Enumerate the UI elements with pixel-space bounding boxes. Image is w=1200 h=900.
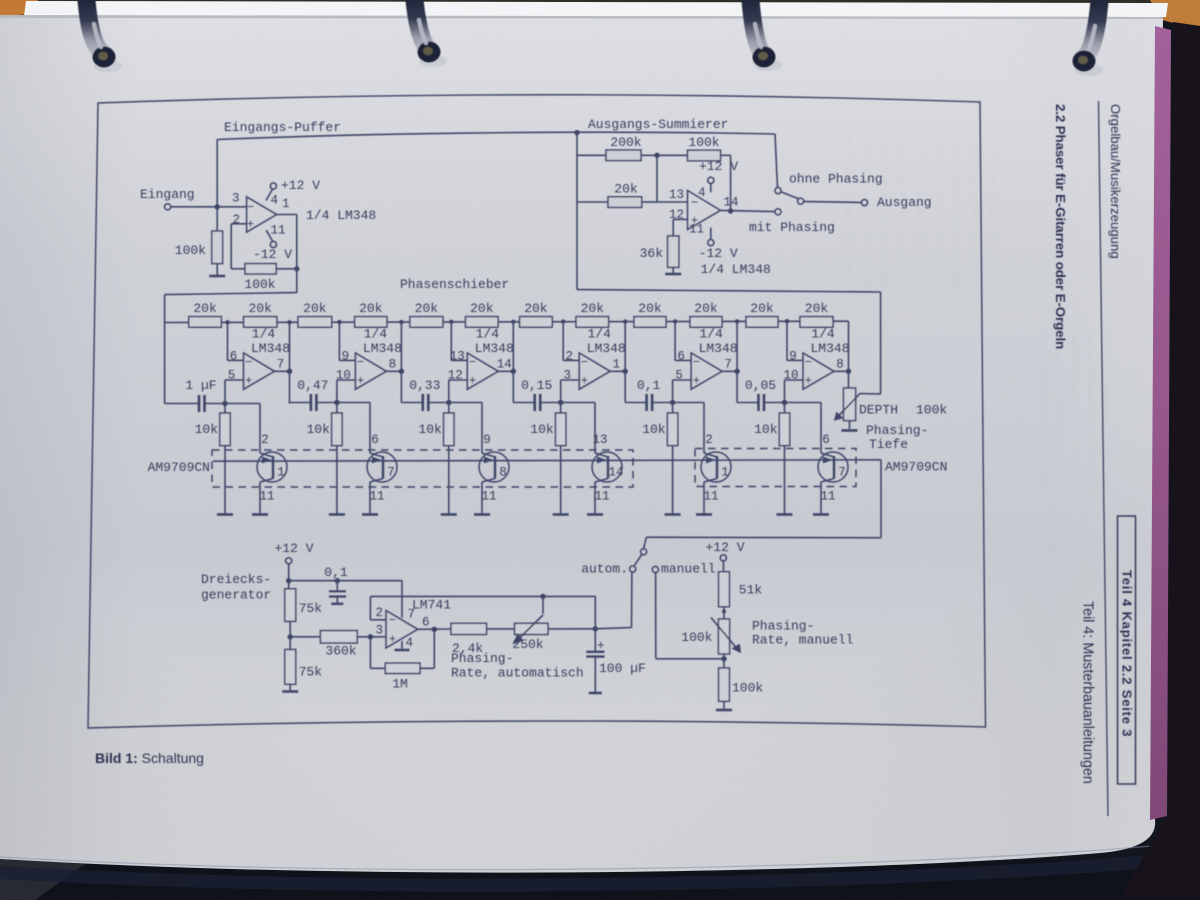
- op-amp U1a buffer 1/4 LM348: [247, 197, 277, 232]
- orange binder spine corner top-left: [0, 0, 38, 16]
- wire stage 1 input drop: [164, 323, 166, 404]
- wire stage 6 non-inverting input: [785, 380, 804, 403]
- op-amp U1b summer 1/4 LM348: [688, 190, 721, 229]
- svg-text:Teil 4 Kapitel 2.2 Seite 3: Teil 4 Kapitel 2.2 Seite 3: [1120, 570, 1135, 737]
- wire phase-shifter top rail: [165, 321, 849, 322]
- svg-text:mulroF red gnuredliB eid tsi r: mulroF red gnuredliB eid tsi refahP: [842, 120, 854, 290]
- wire LFO +12V rail: [289, 580, 402, 582]
- resistor 10k stage 4: [530, 403, 566, 514]
- svg-text:1 µF: 1 µF: [185, 378, 216, 393]
- svg-text:negnutielnauabretsuM eleiv rhe: negnutielnauabretsuM eleiv rhes: [1085, 330, 1097, 489]
- svg-text:+12 V: +12 V: [699, 159, 738, 174]
- svg-text:200k: 200k: [610, 135, 641, 150]
- svg-text:+: +: [389, 633, 396, 647]
- svg-text:AM9709CN: AM9709CN: [148, 460, 210, 475]
- resistor 1M: [370, 629, 434, 691]
- pin 11 FET source: [369, 479, 384, 514]
- svg-text:0,15: 0,15: [521, 378, 552, 393]
- wire stage 3 non-inverting input: [449, 380, 468, 403]
- node +12V manual terminal: [705, 540, 744, 572]
- svg-text:9: 9: [483, 433, 491, 447]
- wire stage 5 inverting input: [673, 319, 691, 360]
- pin 4 ground: [395, 636, 414, 650]
- svg-text:3: 3: [375, 624, 383, 638]
- pin 9: [342, 350, 350, 364]
- svg-text:20k: 20k: [614, 182, 638, 197]
- pin 6: [230, 350, 238, 364]
- label 1/4 LM348 stage 3: [475, 327, 514, 357]
- ground FET 1 source: [252, 513, 268, 516]
- svg-text:1: 1: [282, 197, 290, 211]
- svg-text:−: −: [357, 356, 364, 370]
- svg-text:8: 8: [389, 358, 397, 372]
- svg-text:-12 V: -12 V: [253, 247, 292, 262]
- pin 6: [677, 350, 685, 364]
- svg-text:Rate, manuell: Rate, manuell: [752, 633, 854, 648]
- wire stage 5 non-inverting input: [673, 380, 692, 403]
- resistor 10k stage 5: [642, 403, 678, 514]
- pin 8 output: [836, 358, 844, 372]
- svg-text:11: 11: [689, 223, 704, 237]
- svg-text:−: −: [469, 356, 476, 370]
- svg-text:−: −: [805, 356, 812, 370]
- svg-text:+: +: [357, 374, 364, 388]
- transistor FET 8 (AM9709CN cell): [479, 452, 509, 482]
- label Phasing-Tiefe: [866, 423, 928, 452]
- pin 7 output: [277, 358, 285, 372]
- pin 11 -12V supply: [253, 224, 292, 263]
- svg-text:+: +: [805, 374, 812, 388]
- pin 3: [232, 192, 240, 206]
- resistor 100k summer feedback: [654, 135, 730, 211]
- white edge of pages behind: [24, 1, 1168, 17]
- pin 13 FET drain: [592, 433, 607, 447]
- svg-text:10k: 10k: [418, 422, 442, 437]
- svg-text:+12 V: +12 V: [281, 178, 320, 193]
- pin 4 +12V supply: [266, 178, 320, 208]
- resistor 20k #12 phase rail: [800, 301, 833, 327]
- svg-text:0,1: 0,1: [324, 565, 348, 580]
- wire buffer output: [277, 215, 300, 293]
- pin 2: [375, 606, 383, 620]
- pin 7 output: [724, 358, 732, 372]
- wire stage 4 output node: [610, 319, 628, 402]
- pin 1 output: [612, 358, 620, 372]
- wire pin2 integrator feedback: [370, 594, 595, 620]
- svg-text:Phasing-: Phasing-: [451, 651, 513, 666]
- wire stage 4 to FET drain: [558, 400, 608, 457]
- svg-text:−: −: [693, 356, 700, 370]
- op-amp U4 stage 3 1/4 LM348: [467, 353, 498, 389]
- resistor 100k lower manual: [719, 654, 764, 709]
- capacitor 0,05 stage 6: [737, 378, 784, 411]
- binder ring 2: [414, 0, 447, 67]
- label Dreiecksgenerator: [201, 572, 271, 603]
- node +12V LFO terminal: [274, 541, 313, 589]
- svg-text:1/4: 1/4: [699, 327, 723, 342]
- node mit Phasing contact: [749, 209, 835, 235]
- svg-text:1: 1: [612, 358, 620, 372]
- svg-text:6: 6: [422, 616, 430, 630]
- pin 9 FET drain: [483, 433, 491, 447]
- svg-text:14: 14: [608, 466, 623, 480]
- pin 9: [789, 350, 797, 364]
- svg-text:Orgelbau/Musikerzeugung: Orgelbau/Musikerzeugung: [1108, 104, 1123, 259]
- svg-text:13: 13: [450, 350, 465, 364]
- svg-text:2: 2: [261, 433, 269, 447]
- wire phasing return rail: [577, 290, 881, 394]
- svg-text:2.2 Phaser für E-Gitarren oder: 2.2 Phaser für E-Gitarren oder E-Orgeln: [1053, 104, 1068, 349]
- binder ring 3: [750, 0, 782, 71]
- svg-text:20k: 20k: [359, 301, 383, 316]
- wire summer output: [721, 208, 775, 213]
- wire stage 2 to FET drain: [334, 400, 383, 457]
- node Eingang terminal: [140, 187, 195, 210]
- ground 100uF: [589, 692, 602, 695]
- pin 10: [783, 369, 798, 383]
- label 1/4 LM348: [701, 262, 771, 277]
- label DEPTH 100k: [859, 403, 947, 418]
- transistor FET 1 (AM9709CN cell): [257, 452, 287, 482]
- svg-text:generator: generator: [201, 588, 271, 603]
- label Phasenschieber: [400, 277, 509, 292]
- pin 7 +12V: [402, 581, 415, 622]
- pin 11 FET source: [594, 479, 609, 514]
- resistor 10k stage 3: [418, 403, 454, 514]
- svg-text:360k: 360k: [325, 644, 356, 659]
- svg-text:LM348: LM348: [810, 341, 849, 356]
- svg-text:100k: 100k: [688, 135, 719, 150]
- ground FET 2 source: [362, 513, 378, 516]
- svg-text:Tiefe: Tiefe: [869, 437, 908, 452]
- svg-text:−: −: [389, 614, 396, 628]
- pin 11 FET source: [259, 479, 274, 514]
- svg-text:100k: 100k: [732, 681, 763, 696]
- schematic border frame: [88, 95, 986, 728]
- svg-text:1/4: 1/4: [252, 327, 276, 342]
- ground stage 2 10k: [329, 513, 345, 516]
- resistor 360k: [290, 631, 386, 659]
- svg-text:+: +: [247, 218, 254, 232]
- op-amp U2 stage 1 1/4 LM348: [244, 353, 275, 389]
- svg-text:mulroF red gnuredliB eid tsi r: mulroF red gnuredliB eid tsi refahP: [932, 120, 944, 290]
- svg-text:14: 14: [497, 358, 512, 372]
- binder ring 1: [86, 0, 122, 72]
- svg-text:100k: 100k: [244, 277, 275, 292]
- resistor 20k #2 phase rail: [244, 301, 277, 327]
- resistor 20k #5 phase rail: [410, 301, 443, 327]
- svg-text:20k: 20k: [581, 301, 605, 316]
- svg-text:10k: 10k: [530, 422, 554, 437]
- transistor FET 1 (AM9709CN cell): [701, 452, 731, 482]
- capacitor 0,15 stage 4: [513, 378, 560, 411]
- svg-text:100 µF: 100 µF: [599, 661, 646, 676]
- svg-text:negnutielnauabretsuM eleiv rhe: negnutielnauabretsuM eleiv rhes: [1053, 330, 1065, 489]
- wire stage 3 output node: [498, 320, 516, 403]
- wire stage 6 to FET drain: [782, 400, 834, 457]
- ground stage 6 10k: [777, 513, 793, 516]
- svg-text:20k: 20k: [694, 301, 718, 316]
- transistor FET 7 (AM9709CN cell): [367, 452, 397, 482]
- svg-text:Ausgangs-Summierer: Ausgangs-Summierer: [588, 117, 728, 132]
- svg-text:11: 11: [481, 490, 496, 504]
- label Eingangs-Puffer: [224, 120, 341, 135]
- svg-text:LM348: LM348: [363, 341, 402, 356]
- sidebar title 2.2 Phaser: [1053, 104, 1068, 349]
- wire stage 1 output node: [275, 320, 293, 403]
- svg-text:Phasing-: Phasing-: [866, 423, 928, 438]
- ground manual divider: [716, 709, 732, 712]
- pin 14 output: [497, 358, 512, 372]
- svg-text:10k: 10k: [754, 422, 778, 437]
- svg-text:100k: 100k: [916, 403, 947, 418]
- svg-text:11: 11: [259, 490, 274, 504]
- wire stage 4 non-inverting input: [561, 380, 580, 403]
- ground stage 5 10k: [665, 513, 681, 516]
- svg-text:75k: 75k: [299, 665, 323, 680]
- label 1/4 LM348 stage 6: [810, 327, 849, 357]
- transistor FET 14 (AM9709CN cell): [592, 452, 624, 482]
- ground stage 4 10k: [553, 513, 569, 516]
- label 1/4 LM348 stage 5: [699, 327, 738, 357]
- svg-text:+: +: [597, 638, 605, 653]
- label Ausgangs-Summierer: [588, 117, 728, 132]
- ground stage 1 10k: [217, 513, 233, 516]
- IC AM9709CN right dashed package: [695, 449, 947, 487]
- wire integrator cap node: [593, 596, 632, 631]
- svg-text:1: 1: [277, 466, 285, 480]
- svg-text:100k: 100k: [681, 630, 712, 645]
- svg-text:Phasenschieber: Phasenschieber: [400, 277, 509, 292]
- pin 11 FET source: [703, 479, 718, 514]
- pin 13: [669, 188, 684, 202]
- svg-text:0,05: 0,05: [745, 378, 776, 393]
- svg-text:+12 V: +12 V: [705, 540, 744, 555]
- sidebar rule: [1099, 101, 1109, 816]
- pin 2: [565, 350, 573, 364]
- svg-text:1/4 LM348: 1/4 LM348: [306, 208, 376, 223]
- node autom. contact: [581, 562, 636, 628]
- wire stage 6 output node: [834, 321, 851, 388]
- node Ausgang terminal: [804, 195, 932, 210]
- orange binder spine corner top-right: [1150, 0, 1200, 30]
- ground FET 5 source: [696, 513, 712, 516]
- svg-text:Eingangs-Puffer: Eingangs-Puffer: [224, 120, 341, 135]
- svg-text:20k: 20k: [193, 301, 217, 316]
- resistor 10k stage 6: [754, 403, 790, 514]
- wire input to buffer: [171, 204, 247, 209]
- svg-text:LM348: LM348: [587, 341, 626, 356]
- svg-text:mulroF red gnuredliB eid tsi r: mulroF red gnuredliB eid tsi refahP: [950, 120, 962, 290]
- svg-text:14: 14: [724, 196, 739, 210]
- wire stage 5 output node: [722, 319, 740, 402]
- svg-text:manuell: manuell: [661, 562, 716, 577]
- pin 13: [450, 350, 465, 364]
- svg-text:20k: 20k: [524, 301, 548, 316]
- capacitor 0,33 stage 3: [401, 378, 448, 411]
- svg-text:Teil 4: Musterbauanleitungen: Teil 4: Musterbauanleitungen: [1080, 601, 1096, 784]
- svg-text:1/4: 1/4: [811, 327, 835, 342]
- potentiometer DEPTH 100k: [834, 388, 861, 429]
- caption Bild 1: Schaltung: [95, 750, 204, 766]
- svg-text:10k: 10k: [642, 422, 666, 437]
- svg-text:0,47: 0,47: [297, 378, 328, 393]
- svg-text:20k: 20k: [750, 301, 774, 316]
- resistor 10k stage 1: [195, 404, 231, 514]
- svg-text:DEPTH: DEPTH: [859, 403, 898, 418]
- svg-text:AM9709CN: AM9709CN: [885, 460, 947, 475]
- pin 4 +12V supply: [698, 159, 738, 200]
- svg-text:2: 2: [565, 350, 573, 364]
- svg-text:9: 9: [789, 350, 797, 364]
- svg-text:+12 V: +12 V: [274, 541, 313, 556]
- wire stage 1 inverting input: [225, 320, 243, 360]
- label Phasing-Rate manuell: [752, 619, 854, 648]
- pin 6 FET drain: [822, 433, 830, 447]
- svg-text:6: 6: [230, 350, 238, 364]
- pin 11 -12V supply: [689, 223, 738, 262]
- op-amp U8 LM741: [386, 610, 418, 648]
- label Phasing-Rate automatisch: [451, 651, 584, 681]
- svg-text:+: +: [693, 374, 700, 388]
- svg-text:13: 13: [669, 188, 684, 202]
- svg-text:8: 8: [836, 358, 844, 372]
- svg-text:9: 9: [342, 350, 350, 364]
- pin 1 output: [282, 197, 290, 211]
- wire stage 4 inverting input: [561, 319, 579, 360]
- svg-text:3: 3: [232, 192, 240, 206]
- ground FET 4 source: [587, 513, 603, 516]
- resistor 20k #9 phase rail: [634, 301, 666, 327]
- resistor 20k #11 phase rail: [746, 301, 778, 327]
- svg-text:−: −: [245, 356, 252, 370]
- pin 11 FET source: [820, 479, 835, 514]
- svg-text:2: 2: [375, 606, 383, 620]
- faint print bleed-through: [842, 120, 1113, 489]
- svg-text:20k: 20k: [415, 301, 439, 316]
- resistor 2,4k: [451, 623, 515, 656]
- switch rate select pivot: [635, 549, 647, 566]
- svg-text:0,33: 0,33: [409, 378, 440, 393]
- capacitor 1 µF stage 1: [165, 378, 225, 412]
- svg-text:Eingang: Eingang: [140, 187, 195, 202]
- svg-text:mit Phasing: mit Phasing: [749, 220, 835, 235]
- svg-text:20k: 20k: [303, 301, 327, 316]
- pin 2 FET drain: [705, 433, 713, 447]
- resistor 100k input to ground: [175, 207, 225, 276]
- svg-text:6: 6: [371, 433, 379, 447]
- wire stage 2 output node: [386, 320, 404, 403]
- resistor 51k: [719, 572, 763, 619]
- sidebar Teil 4: Musterbauanleitungen: [1080, 601, 1096, 784]
- pin 3: [563, 369, 571, 383]
- svg-text:100k: 100k: [175, 243, 206, 258]
- pin 11 FET source: [481, 479, 496, 514]
- svg-text:negnutielnauabretsuM eleiv rhe: negnutielnauabretsuM eleiv rhes: [1037, 330, 1049, 489]
- resistor 20k #10 phase rail: [690, 301, 722, 327]
- ground FET 6 source: [813, 513, 829, 516]
- pin 12: [669, 208, 684, 222]
- svg-text:11: 11: [594, 490, 609, 504]
- svg-text:10k: 10k: [306, 422, 330, 437]
- svg-text:11: 11: [820, 490, 835, 504]
- svg-text:20k: 20k: [249, 301, 273, 316]
- resistor 20k #1 phase rail: [189, 301, 222, 327]
- svg-text:250k: 250k: [512, 637, 543, 652]
- resistor 20k #7 phase rail: [520, 301, 553, 327]
- svg-text:Dreiecks-: Dreiecks-: [201, 572, 271, 587]
- svg-text:LM348: LM348: [251, 341, 290, 356]
- wire stage 3 to FET drain: [446, 400, 495, 457]
- resistor 20k #4 phase rail: [355, 301, 387, 327]
- svg-text:1/4: 1/4: [587, 327, 611, 342]
- svg-text:4: 4: [406, 636, 414, 650]
- wire gate bus to rate switch: [644, 460, 881, 549]
- svg-text:LM741: LM741: [412, 598, 451, 613]
- svg-text:36k: 36k: [640, 246, 664, 261]
- svg-text:4: 4: [271, 194, 279, 208]
- svg-text:+: +: [469, 374, 476, 388]
- wire direct-signal feed (top): [217, 132, 775, 207]
- svg-text:negnutielnauabretsuM eleiv rhe: negnutielnauabretsuM eleiv rhes: [1069, 330, 1081, 489]
- potentiometer 250k: [512, 596, 595, 652]
- wire summer left bus: [574, 130, 579, 290]
- wire LFO output: [418, 627, 451, 632]
- svg-text:7: 7: [387, 466, 395, 480]
- pin 3: [375, 624, 383, 638]
- label 1/4 LM348: [306, 208, 376, 223]
- binder ring 4: [1073, 0, 1104, 76]
- wire stage 2 inverting input: [337, 320, 355, 361]
- ground 75k divider: [282, 690, 298, 693]
- pin 6 output: [422, 616, 430, 630]
- svg-text:Bild 1: Schaltung: Bild 1: Schaltung: [95, 750, 204, 766]
- capacitor 0,1 decoupling: [324, 565, 348, 604]
- svg-text:11: 11: [271, 224, 286, 238]
- op-amp U3 stage 2 1/4 LM348: [355, 353, 386, 389]
- svg-text:mulroF red gnuredliB eid tsi r: mulroF red gnuredliB eid tsi refahP: [986, 120, 998, 290]
- dark area beyond page right: [1120, 22, 1200, 900]
- wire stage 2 non-inverting input: [337, 380, 356, 403]
- switch lever output select: [781, 192, 804, 204]
- resistor 75k lower: [285, 634, 323, 690]
- wire stage 3 inverting input: [449, 320, 467, 361]
- svg-text:0,1: 0,1: [637, 378, 661, 393]
- svg-text:1/4: 1/4: [364, 327, 388, 342]
- svg-text:8: 8: [499, 466, 507, 480]
- op-amp U7 stage 6 1/4 LM348: [803, 353, 834, 389]
- svg-text:autom.: autom.: [581, 562, 628, 577]
- svg-text:2: 2: [705, 433, 713, 447]
- wire buffer to phase-shifter rail: [165, 293, 297, 323]
- pin 6 FET drain: [371, 433, 379, 447]
- label 1/4 LM348 stage 4: [587, 327, 626, 357]
- svg-text:−: −: [581, 356, 588, 370]
- resistor 20k #6 phase rail: [466, 301, 499, 327]
- resistor 36k to ground: [640, 219, 688, 274]
- svg-text:20k: 20k: [470, 301, 494, 316]
- pin 14 output: [724, 196, 739, 210]
- node manuell contact: [652, 562, 716, 577]
- svg-text:ohne Phasing: ohne Phasing: [789, 172, 883, 187]
- svg-text:7: 7: [408, 608, 416, 622]
- pin 5: [675, 369, 683, 383]
- svg-text:1/4: 1/4: [476, 327, 500, 342]
- svg-text:1/4 LM348: 1/4 LM348: [701, 262, 771, 277]
- pin 5: [228, 369, 236, 383]
- IC AM9709CN left dashed package: [148, 450, 633, 487]
- ground DEPTH pot: [842, 429, 858, 432]
